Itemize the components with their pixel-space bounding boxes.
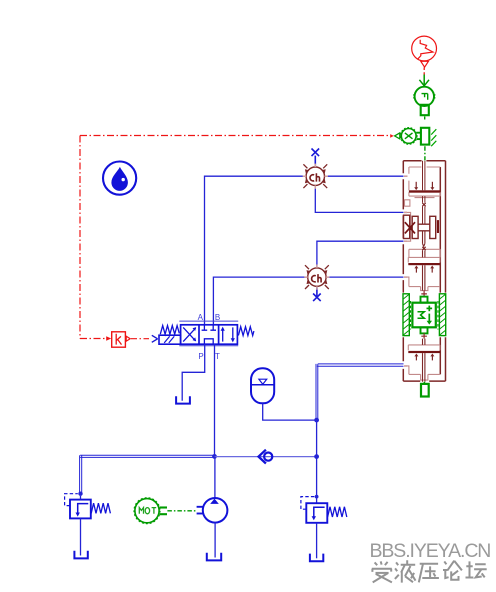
label M (mass) [418,312,425,319]
wire: valve T down to pump node [214,344,216,456]
junction at pump node [212,454,217,459]
relief valve left body [65,492,111,559]
housing inner lining (light) [405,167,441,380]
valve left return spring [160,326,179,335]
mass block M [411,297,438,334]
spool rod (bottom) [423,339,425,382]
piston 3 (bottom, acting up) [408,351,440,361]
wire: chamber Ch1 to assembly port 1 [326,175,404,177]
tank below right relief [310,554,323,562]
chamber Ch2 [304,265,329,290]
plug X below chamber Ch2 [313,287,321,301]
svg-text:T: T [215,352,220,361]
guide rail left (green hatched) [403,294,409,336]
wire: valve B to chamber Ch2 [213,277,306,325]
valve position 3: straight arrows [223,327,233,341]
piston 2 (acting up) [408,263,440,273]
relief valve right [301,497,347,562]
wire: chamber Ch1 bottom to assembly port 2 [315,186,403,212]
fixed wall hatching [431,129,436,146]
spool rod (middle) [423,231,425,244]
char ye [395,560,416,582]
tank below left relief [74,551,87,559]
wire: assembly bottom port to main riser (double run) [316,364,404,420]
junction accumulator node [314,418,319,423]
arrowhead into multiplier triangle [390,134,394,138]
valve body boxes [181,325,238,344]
junction left relief pilot node [78,492,82,496]
wire: valve P down to tank [182,344,205,401]
flapper-nozzle stage [404,215,436,238]
relief valve right spring [328,507,347,517]
electric motor MOT [134,498,160,524]
accumulator [251,368,274,403]
label Ch (chamber 2) [312,274,321,282]
wire: green dash-dot motor shaft to pump shaft [167,510,196,512]
wire: green dash-dot from slider down to spool assembly [424,146,426,160]
svg-text:P: P [198,352,203,361]
position sensor stub (green) below assembly [423,382,425,384]
char lun [443,561,462,580]
wire: pump outlet riser [214,457,216,498]
signal port triangle into multiplier [395,133,400,139]
relief valve left spring [91,503,110,513]
gain block k [112,332,126,347]
shaft between multiplier and slider [417,133,421,139]
tank at valve P [176,396,190,403]
wire: left relief to tank [80,518,82,555]
plug X above chamber Ch1 [312,149,320,167]
relief valve right pilot line [301,497,315,510]
wire: red dash-dot control net from k gain to multiplier (top run) [80,136,391,339]
wire: main riser down to relief valve [316,420,318,503]
pump [197,457,228,561]
svg-text:BBS.IYEYA.CN: BBS.IYEYA.CN [369,540,490,562]
wire: pump suction to tank [214,523,216,558]
spool rod through piston 2 [423,250,425,290]
label k [116,334,121,345]
slider body on fixed wall [421,128,429,145]
char ai [375,561,388,565]
check valve [259,450,273,464]
char tan [466,561,487,577]
valve right return spring [238,327,254,336]
wire: pump node to left relief (double run) [80,455,215,493]
label F [422,94,428,100]
wire: green signal arrow into force transducer [419,75,429,87]
valve position 1: crossed arrows [183,327,195,341]
watermark chinese characters [372,560,487,582]
svg-text:A: A [198,313,204,322]
multiplier x (gear circle) [400,128,417,145]
blue arrowhead into valve pilot [152,335,158,342]
valve proportional solenoid [159,335,181,344]
arrowhead into k gain [106,336,111,341]
fluid properties icon (drop) [103,162,136,195]
wire: red dashed signal source output [423,67,425,77]
directional valve 4/3 proportional: rails [179,321,238,346]
feedback stop bar [437,220,439,233]
junction check valve node [314,454,319,459]
k output port [126,336,130,341]
guide rail right (green hatched) [439,294,445,336]
rod link tick to mass [421,291,427,297]
wire: red dash-dot from k to valve pilot [131,338,149,340]
junction pilot node right relief [315,495,319,499]
wire: right relief to tank [316,523,318,559]
motor shaft [160,508,167,515]
wire: pump node right through check valve [215,456,317,458]
rod seal cross (upper) [422,203,425,206]
svg-text:B: B [215,313,220,322]
label MOT [139,508,156,514]
wire: green dash between F stub and multiplier row [424,117,426,121]
label Ch (chamber 1) [310,173,319,181]
spool rod (upper) [423,161,425,225]
piston 1 (top, acting down) [409,182,440,193]
wire: chamber Ch2 top to assembly port 3 [317,241,404,267]
pump shaft [197,507,203,514]
rod link tick below mass [421,333,427,338]
tank below pump [207,553,221,561]
rod seal cross (lower) [422,247,425,250]
wire: accumulator to riser [263,404,316,421]
mechanical port stubs (light red) at hydraulic ports [404,176,408,366]
wire: chamber Ch2 to assembly port 4 [327,276,403,278]
nozzle jet cross X [405,222,415,233]
valve position 2: blocked A/B with P-T notch [202,325,216,344]
rod stub below force transducer [421,105,429,115]
relief valve left pilot line [65,494,78,506]
chamber Ch1 [303,164,328,189]
char ya [419,564,439,583]
signal source (piecewise linear input) [412,36,437,67]
spool assembly housing outer walls [403,161,445,381]
wire: valve A to chamber Ch1 [205,176,306,325]
force transducer F [413,87,435,106]
